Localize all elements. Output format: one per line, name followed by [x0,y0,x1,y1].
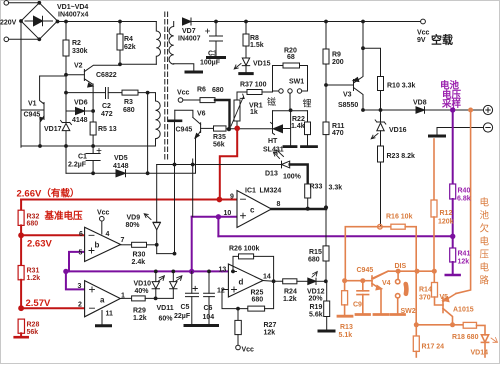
ground R19 [319,330,334,333]
wire op-amp a output [120,297,131,299]
LED VD12 [308,278,316,284]
svg-text:6: 6 [79,231,83,238]
resistor R18 [463,322,476,328]
svg-text:9: 9 [230,194,234,201]
purple long line [218,235,452,237]
svg-text:R41: R41 [458,251,471,258]
svg-text:R15: R15 [309,249,322,256]
svg-text:11: 11 [106,311,114,318]
svg-text:VD7: VD7 [182,28,196,35]
resistor R31 [18,266,24,280]
junction dots section A [19,1,218,175]
black dots section D [154,270,328,311]
LED VD15 [245,52,247,58]
lower rail [66,172,196,174]
resistor R9 [325,22,327,123]
svg-text:VD5: VD5 [114,155,128,162]
svg-text:C2: C2 [102,103,111,110]
battery terminal minus [483,123,492,132]
AC terminal bottom [4,37,9,42]
svg-text:VD6: VD6 [74,100,88,107]
wire op-amp d output [263,280,283,283]
terminal Vcc 9V [363,21,421,23]
wire pin7 to R30 [121,244,132,246]
ground C6 [203,324,218,327]
svg-text:电: 电 [480,197,490,209]
wire R16 branch [345,227,391,281]
svg-text:C9: C9 [353,302,362,309]
svg-text:R19: R19 [310,304,323,311]
wire V6 base to R35 [201,127,214,129]
purple wire pin13 [222,270,228,272]
thick wire op-amp c output [271,208,326,210]
resistor R5 [92,111,94,146]
wire V3 base [326,84,354,86]
svg-text:2: 2 [78,302,82,309]
vertical to pin10 net [192,159,194,217]
red junction dots [18,126,240,312]
svg-text:IC1: IC1 [245,188,256,195]
op-amp d [228,264,263,297]
svg-text:680: 680 [27,221,39,228]
svg-text:A1015: A1015 [453,307,474,314]
wire AC top to bridge [9,2,40,4]
resistor R23 [378,146,384,162]
resistor R40 [450,184,456,199]
red wire node to pin6 [21,234,85,236]
resistor R11 [323,122,329,135]
svg-text:680: 680 [308,257,320,264]
svg-text:C5: C5 [181,304,190,311]
purple junction dots [63,107,455,274]
capacitor C6 [208,271,210,325]
svg-text:D13: D13 [265,171,278,178]
thick wire D13 to R33 [290,165,308,185]
thick wire R6 to node [215,100,230,129]
svg-text:R23 8.2k: R23 8.2k [387,153,416,160]
svg-text:R29: R29 [133,308,146,315]
svg-text:R12: R12 [440,210,453,217]
svg-text:a: a [100,296,105,305]
purple wire pin3 [66,271,85,289]
svg-text:R28: R28 [27,322,40,329]
transistor V4 [363,280,372,282]
svg-text:R33: R33 [310,184,323,191]
transistor V3 [353,80,355,91]
ground VD15 [240,72,252,75]
resistor R33 [305,184,311,198]
resistor R8 [245,22,247,53]
resistor R2 [65,22,67,112]
svg-text:40%: 40% [135,288,150,295]
ground secondary [186,71,202,74]
svg-text:V5: V5 [440,294,449,301]
svg-text:104: 104 [203,314,215,321]
svg-text:20%: 20% [309,296,324,303]
svg-text:14: 14 [263,274,271,281]
svg-text:R31: R31 [27,268,40,275]
svg-text:R5 13: R5 13 [98,126,117,133]
op-amp b [85,227,121,261]
svg-text:12k: 12k [458,259,470,266]
svg-text:2.2µF: 2.2µF [68,162,87,169]
junction dots section B [227,20,383,132]
svg-text:DIS: DIS [395,263,407,270]
resistor R15 [323,246,329,261]
wire V3 emitter rail [362,22,364,49]
svg-text:VD11: VD11 [157,305,174,312]
svg-text:C6822: C6822 [96,72,117,79]
svg-text:200: 200 [332,59,344,66]
svg-text:S8550: S8550 [338,102,358,109]
svg-text:VD17: VD17 [44,126,62,133]
svg-text:1k: 1k [250,109,258,116]
orange discharge network [338,110,498,357]
svg-text:SW2: SW2 [401,308,416,315]
vertical sample line 1 [156,165,158,223]
svg-text:1.2k: 1.2k [133,315,147,322]
ground C9 [356,313,370,316]
wire minus to ground [437,128,483,136]
svg-text:VD8: VD8 [413,100,427,107]
svg-text:1.5k: 1.5k [250,42,264,49]
LED D13 [282,161,290,168]
resistor R20 [283,63,300,68]
transistor V6 [200,123,202,133]
potentiometer VR1 [236,92,238,127]
terminal Vcc bottom [236,345,241,350]
svg-text:2.66V（有载）: 2.66V（有载） [17,188,80,200]
svg-text:R22: R22 [292,116,305,123]
svg-text:R9: R9 [332,52,341,59]
svg-text:R6: R6 [197,87,206,94]
svg-text:C945: C945 [357,267,374,274]
svg-text:1.4k: 1.4k [291,123,305,130]
switch SW2 [397,271,399,279]
svg-text:d: d [239,278,244,287]
resistor R19 [326,281,328,301]
svg-text:镃: 镃 [267,96,276,107]
LED VD11 [172,271,174,281]
primary ground rail [21,145,156,147]
wire AC bottom to bridge [9,38,40,40]
svg-text:R8: R8 [250,35,259,42]
vertical feedback tap [147,93,149,174]
resistor R27 [237,309,239,321]
resistor R41 [452,236,454,248]
red wire horizontal to pin9 and left [21,199,237,201]
labels section B [176,30,462,161]
resistor R13 [344,281,346,291]
wire pin12 bracket [222,290,248,309]
svg-text:R10 3.3k: R10 3.3k [387,83,416,90]
resistor R12 [433,139,435,200]
svg-text:VD10: VD10 [134,281,152,288]
svg-text:5.6k: 5.6k [309,312,323,319]
switch SW1 [273,90,279,92]
terminal Vcc aux [178,98,183,103]
svg-text:欠: 欠 [480,223,490,235]
svg-text:V4: V4 [382,280,391,287]
transformer feedback winding [138,93,160,146]
purple riser to lower line [191,217,193,272]
capacitor C3 [215,22,217,58]
svg-text:V6: V6 [197,111,206,118]
transistor V2 [83,70,85,81]
svg-text:C1: C1 [78,154,87,161]
svg-text:2.4k: 2.4k [132,259,146,266]
vertical sample line 2 [174,122,176,253]
wire joining verticals [157,253,175,255]
LED VD9 [153,221,160,223]
svg-text:12: 12 [217,288,225,295]
resistor R32 [18,210,24,225]
resistor R22 [305,122,311,135]
transistor V5 [442,298,444,313]
svg-text:22µF: 22µF [174,313,191,320]
svg-text:56k: 56k [27,329,39,336]
ground C5 [185,324,201,327]
svg-text:120k: 120k [438,219,454,226]
svg-text:220V: 220V [0,20,17,27]
svg-text:IN4007: IN4007 [178,36,201,43]
resistor R24 [283,279,297,284]
bridge rectifier VD1~VD4 [21,3,58,40]
resistor R14 [432,283,438,298]
svg-text:1.2k: 1.2k [283,296,297,303]
ground SL431 [284,145,296,148]
zener VD17 [65,111,67,122]
svg-text:电: 电 [480,262,490,274]
purple wire battery+ down [452,110,454,184]
svg-text:R40: R40 [458,188,471,195]
svg-text:池: 池 [480,210,490,222]
svg-text:370: 370 [419,295,431,302]
capacitor C5 [191,271,193,325]
diode VD8 [416,107,425,113]
wire R35 to SL431 [226,128,273,130]
diode VD5 [116,170,126,177]
svg-text:R24: R24 [284,289,297,296]
wire charge line [363,109,416,111]
AC terminal top [4,1,9,6]
svg-text:R17 24: R17 24 [422,344,445,351]
svg-text:9V: 9V [417,37,426,44]
resistor R6 [183,99,200,101]
ground C3 [208,56,225,59]
svg-text:R11: R11 [332,123,345,130]
svg-text:R32: R32 [27,214,40,221]
svg-text:V3: V3 [343,92,352,99]
LED VD14 [481,335,488,342]
svg-text:R27: R27 [264,322,277,329]
svg-text:R4: R4 [124,36,133,43]
svg-text:Vcc: Vcc [97,210,110,217]
svg-text:R3: R3 [124,99,133,106]
svg-text:VD16: VD16 [389,127,407,134]
svg-text:R25: R25 [251,290,264,297]
resistor R37 [247,90,262,95]
svg-text:7: 7 [121,237,125,244]
ground battery minus [430,135,445,138]
op-amp c [237,191,271,228]
svg-text:基准电压: 基准电压 [44,210,84,222]
svg-text:62k: 62k [124,44,136,51]
svg-text:Vcc: Vcc [177,90,190,97]
wire V2 collector node to transformer [120,63,156,65]
svg-text:80%: 80% [126,222,141,229]
shunt reg SL431 [271,123,275,135]
svg-text:680: 680 [123,107,135,114]
svg-text:R13: R13 [340,324,353,331]
svg-text:5.1k: 5.1k [339,332,353,339]
op-amp a [85,281,121,317]
svg-text:C3: C3 [208,51,217,58]
svg-text:V1: V1 [28,101,37,108]
wire V1 base [21,109,44,111]
svg-text:1.2k: 1.2k [27,275,41,282]
svg-text:LM324: LM324 [260,188,282,195]
svg-text:680: 680 [252,297,264,304]
resistor R29 [132,296,146,301]
labels section D [133,188,490,357]
svg-text:R26 100k: R26 100k [229,246,259,253]
svg-text:R37 100: R37 100 [240,82,267,89]
wire D13 line [157,164,282,166]
svg-text:VD1~VD4: VD1~VD4 [57,4,88,11]
svg-text:13: 13 [219,267,227,274]
transformer primary winding [156,22,160,65]
resistor R10 [378,77,384,91]
svg-text:c: c [250,206,255,215]
transistor V1 [43,103,45,120]
svg-text:C6: C6 [204,305,213,312]
wire DC- left vertex down [20,21,22,147]
red wire node to pin2 [21,307,85,309]
svg-text:IN4007x4: IN4007x4 [58,12,88,19]
resistor R3 [122,90,138,95]
svg-text:HT: HT [268,138,278,145]
svg-text:680: 680 [212,87,224,94]
svg-text:R16 10k: R16 10k [386,214,413,221]
terminal Vcc b [100,216,105,221]
svg-text:R18 680: R18 680 [452,334,479,341]
svg-text:12k: 12k [264,330,276,337]
svg-text:V2: V2 [74,63,83,70]
diode VD7 [183,18,192,25]
diode VD6 [66,110,76,112]
resistor R25 [248,306,265,311]
svg-text:R14: R14 [419,287,432,294]
svg-text:VD14: VD14 [471,350,489,357]
bypass bar V6 collector [169,120,181,123]
wire secondary bottom to ground [174,64,194,72]
purple wire pin5 [69,252,85,272]
purple lower line [66,270,222,272]
svg-text:3: 3 [78,283,82,290]
capacitor C9 [362,281,364,291]
svg-text:60%: 60% [159,316,174,323]
svg-text:VD9: VD9 [127,215,141,222]
transformer core dashed [165,12,168,160]
ground R13 [338,315,352,318]
svg-text:b: b [95,241,100,250]
svg-text:路: 路 [480,275,490,287]
svg-text:4: 4 [106,231,110,238]
svg-text:锂: 锂 [303,98,312,109]
svg-text:C945: C945 [176,127,193,134]
resistor R16 [391,224,405,229]
svg-text:4148: 4148 [113,163,129,170]
red reference network [15,128,238,337]
svg-text:472: 472 [101,111,113,118]
svg-text:电: 电 [480,236,490,248]
LED VD10 [155,271,157,281]
vertical line R15 chain [325,261,327,281]
svg-text:470: 470 [332,130,344,137]
svg-text:Vcc: Vcc [417,30,430,37]
capacitor C1 [92,146,94,173]
svg-text:R30: R30 [133,252,146,259]
svg-text:VD15: VD15 [253,61,271,68]
svg-text:压: 压 [480,250,490,261]
svg-text:5: 5 [79,250,83,257]
red wire VR1 node down [220,128,237,199]
resistor R28 [18,319,24,333]
svg-text:10: 10 [224,210,232,217]
svg-text:空载: 空载 [431,33,453,47]
capacitor C2 [66,92,122,94]
resistor R35 [214,126,227,131]
svg-text:SW1: SW1 [289,79,304,86]
ground V4 [374,313,388,316]
svg-text:56k: 56k [213,142,225,149]
svg-text:6.8k: 6.8k [457,196,471,203]
orange wire battery+ riser [456,110,471,294]
svg-text:VD12: VD12 [307,289,325,296]
node bracket SL431/R22 [273,110,308,112]
svg-text:100%: 100% [283,174,302,181]
svg-text:3.3k: 3.3k [329,185,343,192]
labels section C [17,171,343,337]
resistor R17 [415,325,417,336]
svg-text:8: 8 [277,201,281,208]
battery terminal plus [483,105,492,114]
svg-text:100µF: 100µF [200,60,221,67]
orange junction dots [342,108,473,328]
purple end bar [446,274,460,276]
zener VD16 [380,110,382,122]
svg-text:4148: 4148 [72,117,88,124]
purple sampling network [66,110,460,289]
svg-text:68: 68 [287,54,295,61]
resistor R30 [132,242,147,247]
wire V4 base line [345,280,363,282]
SECTION-C-END [120,246,334,350]
svg-text:2.63V: 2.63V [27,239,52,250]
resistor R26 [233,256,239,271]
labels section A [0,4,221,170]
svg-text:2.57V: 2.57V [26,298,51,309]
purple wire pin10 [192,217,237,237]
svg-text:R35: R35 [213,134,226,141]
wire DIS line [374,271,435,282]
wire pin11 ground [101,311,103,326]
wire V2 base [66,74,84,76]
svg-text:Vcc: Vcc [242,347,255,354]
transformer secondary winding [169,22,174,65]
black junction dots section C [146,91,328,256]
